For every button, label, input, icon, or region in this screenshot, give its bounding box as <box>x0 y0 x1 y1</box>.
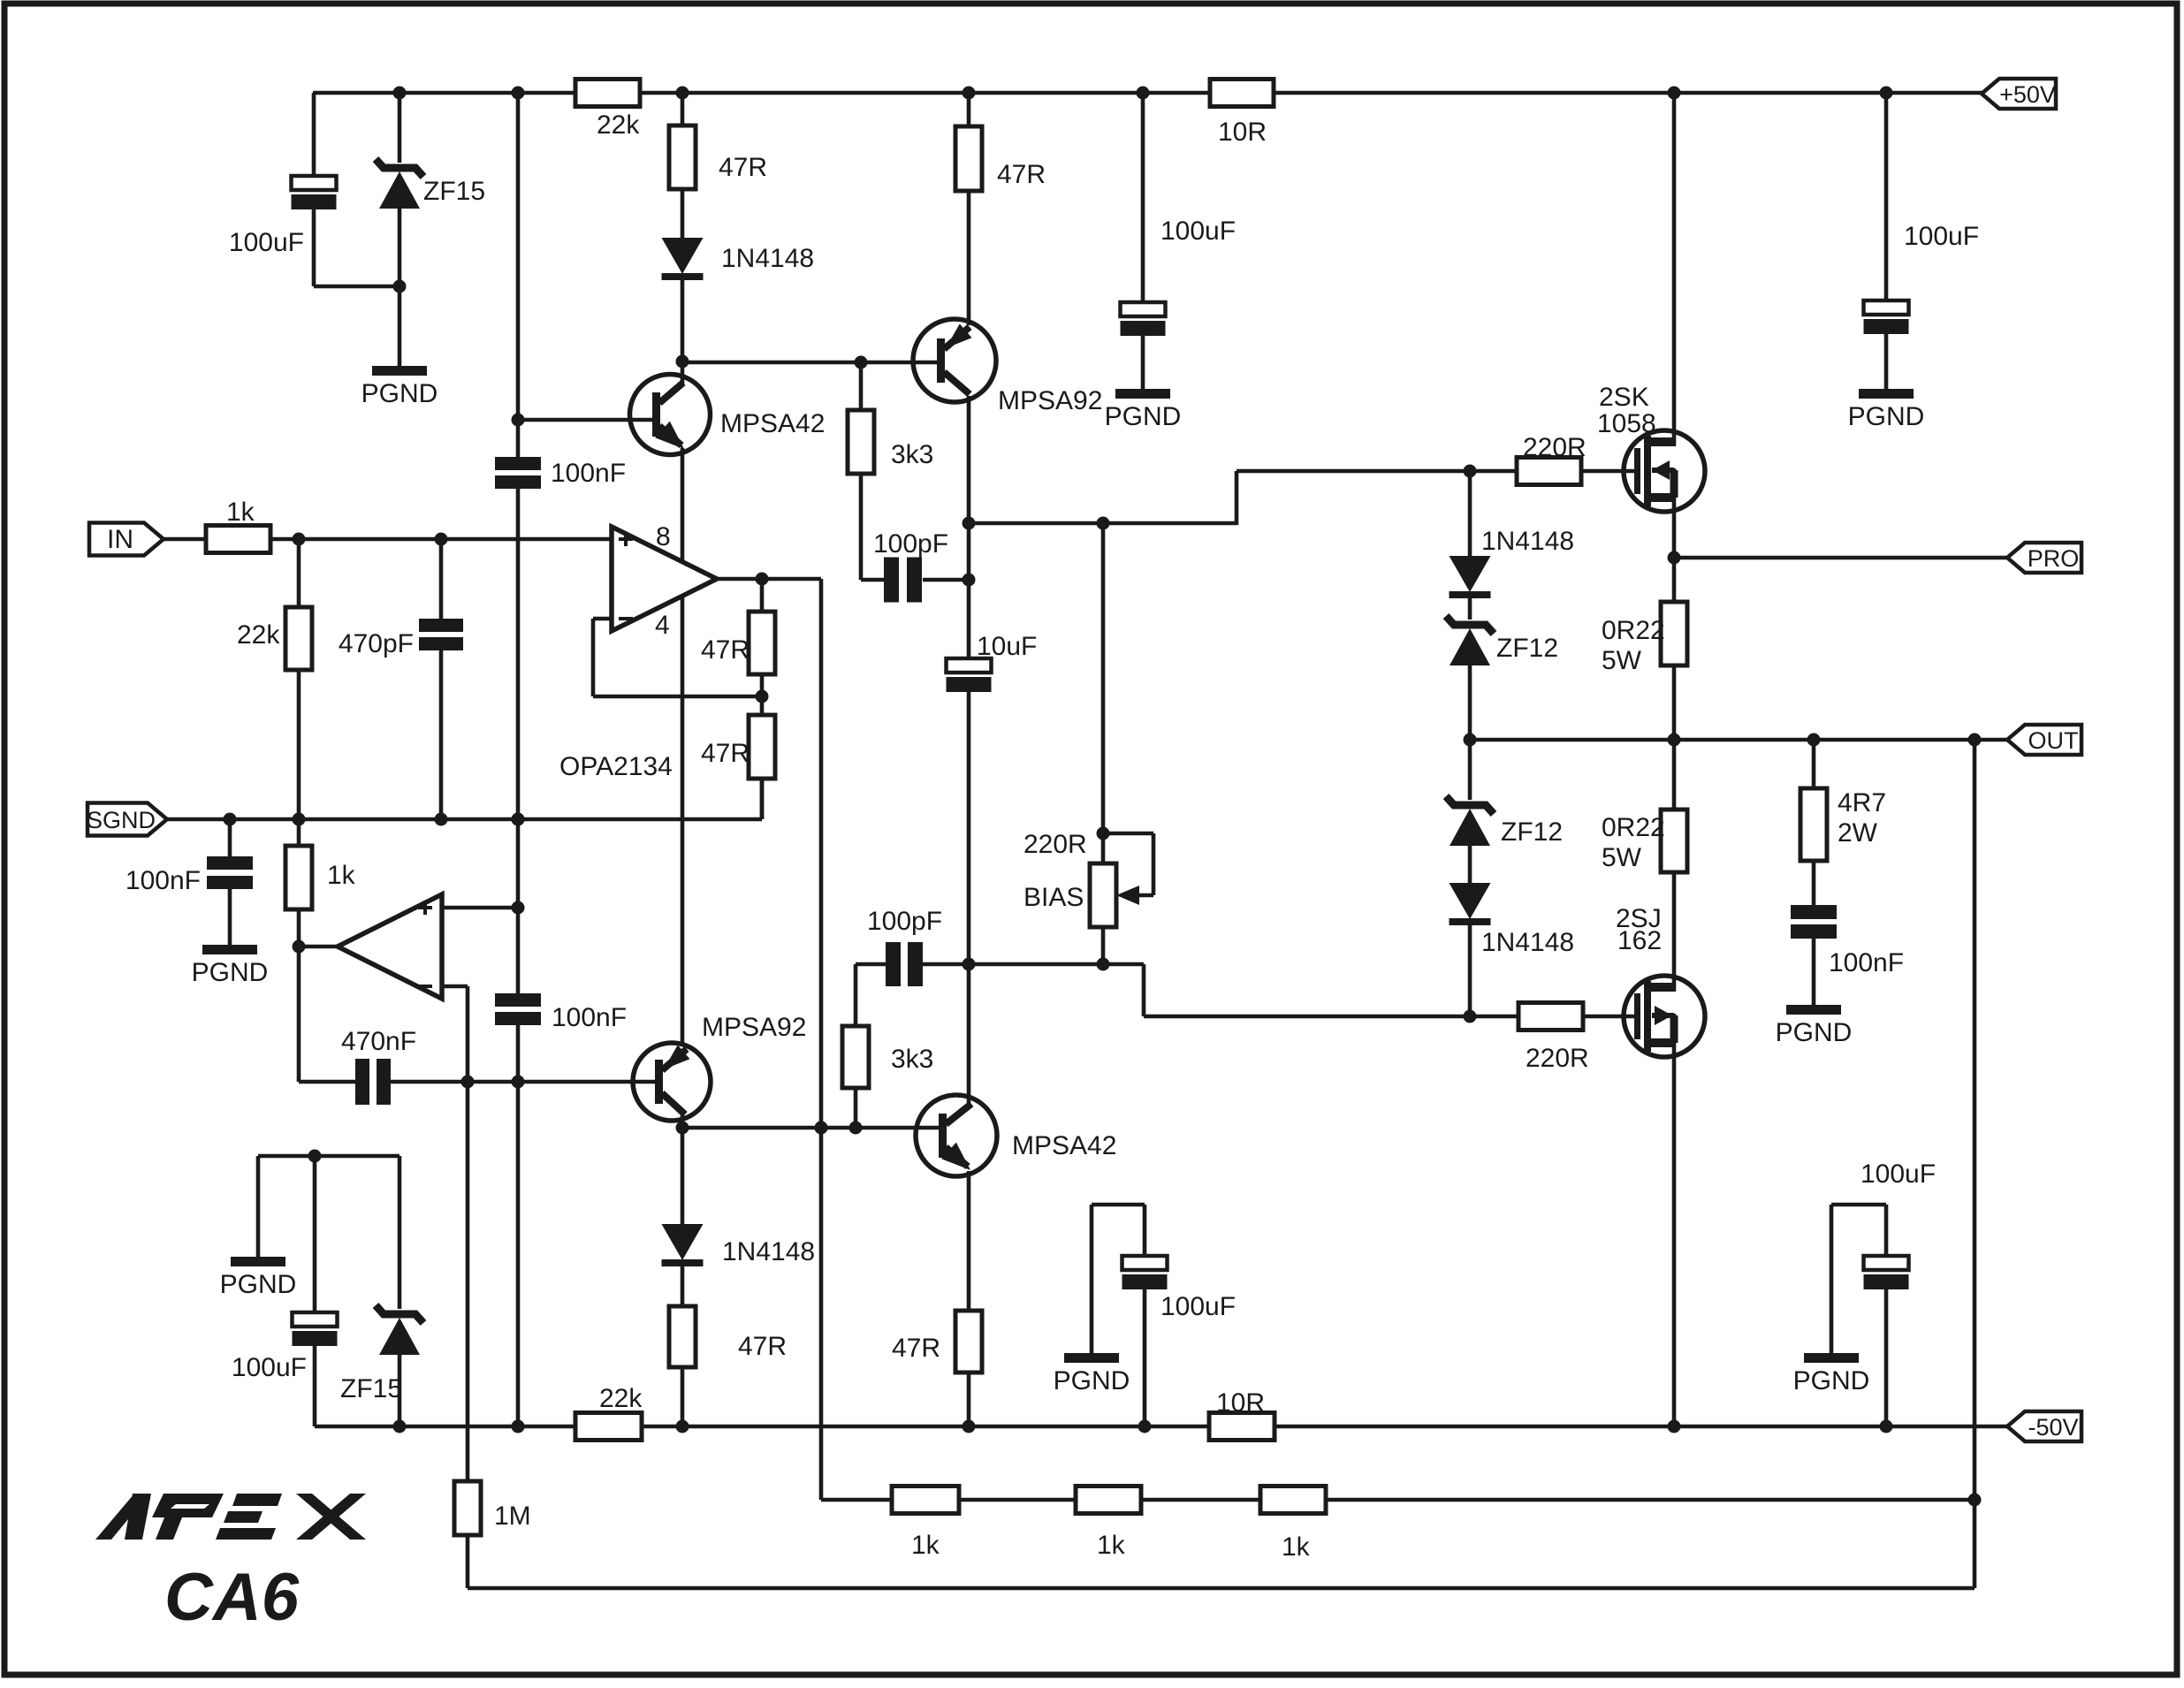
svg-text:100uF: 100uF <box>1904 222 1979 251</box>
svg-text:OUT: OUT <box>2028 727 2079 754</box>
svg-text:4: 4 <box>655 611 670 640</box>
svg-text:3k3: 3k3 <box>891 1045 933 1074</box>
svg-text:1k: 1k <box>226 498 255 527</box>
svg-text:100pF: 100pF <box>867 907 942 936</box>
svg-text:0R22: 0R22 <box>1602 616 1665 645</box>
svg-text:IN: IN <box>107 525 133 554</box>
svg-text:MPSA42: MPSA42 <box>1012 1131 1116 1160</box>
svg-text:BIAS: BIAS <box>1024 883 1084 912</box>
svg-text:47R: 47R <box>997 160 1046 189</box>
svg-text:MPSA42: MPSA42 <box>720 409 825 438</box>
svg-text:CA6: CA6 <box>164 1560 300 1635</box>
svg-text:100pF: 100pF <box>873 529 948 559</box>
svg-text:162: 162 <box>1617 926 1662 955</box>
svg-text:100nF: 100nF <box>1829 948 1904 977</box>
svg-text:22k: 22k <box>237 620 280 650</box>
svg-text:100nF: 100nF <box>552 1003 627 1032</box>
svg-text:1k: 1k <box>1282 1532 1311 1562</box>
svg-text:MPSA92: MPSA92 <box>702 1013 806 1042</box>
svg-text:ZF12: ZF12 <box>1501 817 1563 847</box>
svg-text:PGND: PGND <box>361 379 438 408</box>
svg-text:10uF: 10uF <box>977 632 1037 661</box>
svg-text:47R: 47R <box>738 1332 787 1361</box>
svg-text:MPSA92: MPSA92 <box>998 386 1102 415</box>
svg-text:PGND: PGND <box>1848 402 1925 431</box>
svg-text:470nF: 470nF <box>341 1027 416 1056</box>
svg-text:5W: 5W <box>1602 646 1642 675</box>
svg-text:22k: 22k <box>599 1384 643 1413</box>
svg-text:100nF: 100nF <box>551 459 626 488</box>
svg-text:PGND: PGND <box>220 1270 297 1299</box>
svg-text:1k: 1k <box>911 1531 940 1560</box>
svg-text:PGND: PGND <box>192 958 269 987</box>
svg-text:1M: 1M <box>494 1502 531 1531</box>
svg-text:220R: 220R <box>1024 830 1087 859</box>
svg-text:ZF15: ZF15 <box>423 177 485 206</box>
svg-text:10R: 10R <box>1216 1388 1265 1418</box>
svg-text:1N4148: 1N4148 <box>722 1237 815 1266</box>
svg-text:100nF: 100nF <box>126 866 201 895</box>
svg-text:-50V: -50V <box>2028 1414 2078 1441</box>
svg-text:PGND: PGND <box>1054 1366 1130 1395</box>
svg-text:100uF: 100uF <box>1861 1160 1936 1189</box>
svg-text:OPA2134: OPA2134 <box>559 752 673 781</box>
svg-text:10R: 10R <box>1218 118 1267 147</box>
svg-text:47R: 47R <box>719 153 767 182</box>
svg-text:1k: 1k <box>327 861 356 890</box>
svg-text:ZF15: ZF15 <box>340 1374 402 1403</box>
svg-text:1N4148: 1N4148 <box>1481 527 1574 556</box>
svg-text:PGND: PGND <box>1776 1018 1853 1047</box>
svg-text:22k: 22k <box>597 110 640 140</box>
svg-text:2W: 2W <box>1838 818 1878 848</box>
svg-text:PGND: PGND <box>1105 402 1182 431</box>
svg-text:1N4148: 1N4148 <box>721 244 814 273</box>
svg-text:100uF: 100uF <box>229 228 304 257</box>
svg-text:100uF: 100uF <box>1160 217 1236 246</box>
svg-text:47R: 47R <box>701 635 750 665</box>
svg-text:4R7: 4R7 <box>1838 788 1886 817</box>
svg-text:PGND: PGND <box>1793 1366 1870 1395</box>
svg-text:+50V: +50V <box>1999 81 2056 108</box>
svg-text:PRO: PRO <box>2028 545 2080 572</box>
svg-text:1N4148: 1N4148 <box>1481 928 1574 957</box>
svg-text:470pF: 470pF <box>339 629 414 658</box>
svg-text:1058: 1058 <box>1597 409 1656 438</box>
svg-text:2SK: 2SK <box>1599 383 1649 412</box>
svg-text:220R: 220R <box>1523 433 1587 462</box>
svg-text:8: 8 <box>656 522 671 551</box>
svg-text:47R: 47R <box>701 739 750 768</box>
svg-text:1k: 1k <box>1097 1531 1126 1560</box>
svg-text:ZF12: ZF12 <box>1496 634 1558 663</box>
svg-text:0R22: 0R22 <box>1602 813 1665 842</box>
svg-text:3k3: 3k3 <box>891 440 933 469</box>
svg-text:100uF: 100uF <box>232 1353 307 1382</box>
svg-text:220R: 220R <box>1526 1044 1589 1073</box>
svg-text:47R: 47R <box>892 1334 940 1363</box>
svg-text:SGND: SGND <box>87 807 156 833</box>
svg-text:100uF: 100uF <box>1160 1292 1236 1321</box>
svg-text:5W: 5W <box>1602 843 1642 872</box>
